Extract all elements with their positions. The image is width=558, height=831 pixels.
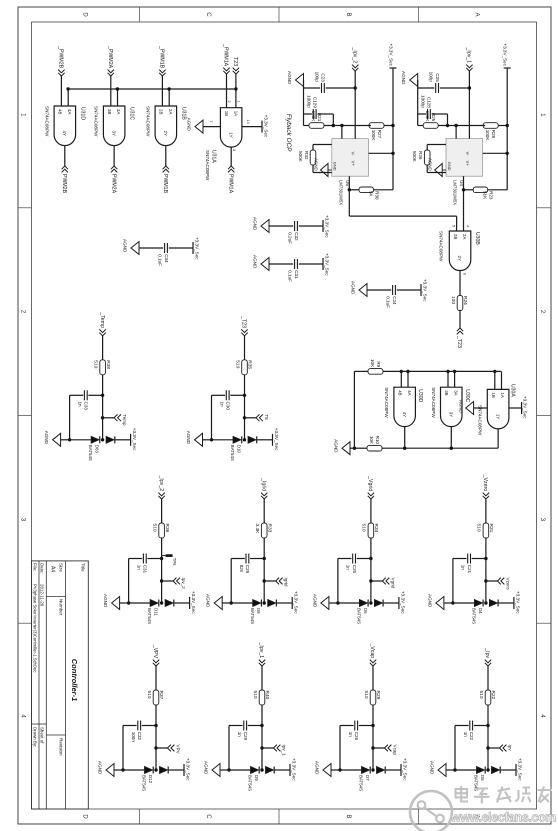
ground AGND under op-amp [314, 158, 329, 177]
wire bus branch to gate input A [67, 89, 69, 106]
port Vgrid [371, 578, 396, 589]
node junction ground rail [338, 768, 341, 771]
power +3.3V_Sec rail [392, 68, 394, 190]
node junction bus-U31D.A [66, 87, 69, 90]
resistor R37 [146, 690, 164, 705]
wire R34 to node [370, 538, 372, 603]
node junction bus-U31B.A [167, 87, 170, 90]
wire C25 to ground rail [338, 558, 352, 560]
node junction V- [454, 124, 457, 127]
op-amp U31A AND gate [205, 108, 242, 181]
diode D5 BAT54S pair [474, 767, 501, 792]
diode D10 BAT54S pair [230, 436, 257, 461]
wire _Vzero to resistor [485, 499, 487, 523]
resistor R33 [254, 523, 272, 538]
wire T23 bus vertical [68, 88, 236, 90]
node junction ground rail [230, 601, 233, 604]
node junction bus B U30C out [450, 447, 453, 450]
port T8 [245, 414, 270, 421]
port VPV [156, 745, 181, 755]
ground AGND [123, 239, 140, 255]
resistor R25 vertical [438, 125, 456, 127]
capacitor C128 branch [446, 124, 449, 127]
wire C31 to ground rail [129, 558, 143, 560]
node junction ground rail [336, 601, 339, 604]
ground AGND U30A [459, 400, 474, 415]
resistor R9 [368, 359, 383, 374]
wire U30D output to bus B [404, 427, 406, 449]
capacitor C24 [386, 285, 397, 308]
port _Vcap [369, 642, 376, 666]
resistor R27 vertical [382, 125, 393, 127]
wire R37 to node [155, 705, 157, 770]
power +3.3V_Sec decoupling C31 [323, 253, 330, 276]
wire power to C32 [299, 225, 323, 227]
ground AGND [103, 594, 120, 610]
port Vzero [486, 578, 511, 590]
wire R40 to node [261, 705, 263, 770]
wire RT to V- node [456, 125, 485, 127]
diode D9 BAT54S pair [248, 767, 275, 792]
resistor R38 [92, 360, 110, 375]
svg-text:www.elecfans.com: www.elecfans.com [450, 811, 556, 825]
wire R29 to node [372, 705, 374, 770]
node junction C branch [260, 724, 263, 727]
port _Vgrid [367, 475, 374, 499]
wire bus to U30D input B [400, 371, 402, 387]
resistor R28 vertical [496, 125, 507, 127]
capacitor C23 branch [326, 87, 356, 89]
wire T23 to U31A pin1 [235, 74, 237, 108]
port T23 [232, 57, 239, 74]
power +3.3V_Sec [514, 591, 521, 614]
capacitor C32 [288, 221, 299, 244]
wire power to C34 [169, 247, 193, 249]
port _T23 [456, 328, 463, 348]
ground rail wire [417, 80, 419, 126]
capacitor C34 [158, 243, 169, 266]
wire C33 to ground rail [70, 394, 84, 396]
port PWM1A [227, 166, 234, 194]
wire diode to ground [231, 602, 252, 604]
op-amp U4 [446, 139, 483, 206]
wire diode to power [499, 602, 514, 604]
node junction V- [340, 124, 343, 127]
wire ground link busA-busB [353, 371, 355, 448]
capacitor C31 [288, 259, 299, 282]
node junction output [348, 188, 351, 191]
node junction ground rail [68, 438, 71, 441]
ground rail wire [303, 80, 305, 126]
capacitor C21 [461, 554, 472, 574]
wire C branch down [88, 394, 102, 396]
node junction ground rail [121, 768, 124, 771]
node junction diode center [101, 438, 104, 441]
wire U30B output to R24 [459, 271, 461, 297]
title block [32, 561, 89, 809]
wire diode to power [257, 439, 272, 441]
ground AGND [98, 761, 115, 777]
power +3.3V_Sec [292, 591, 299, 614]
node junction bus B U30D out [403, 447, 406, 450]
capacitor C25 [429, 72, 440, 93]
capacitor C29 [237, 721, 248, 741]
node junction diode center [260, 768, 263, 771]
wire diode to power [115, 439, 130, 441]
wire input bus A vertical [383, 370, 501, 372]
wire C branch down [147, 558, 161, 560]
op-amp U30D AND gate [384, 387, 423, 426]
wire U5 output riser to U30B [349, 215, 456, 217]
node junction C branch [484, 557, 487, 560]
wire C branch down [250, 558, 264, 560]
wire U30C output to bus B [450, 427, 452, 449]
wire C31 to ground [269, 263, 293, 265]
wire diode to power [174, 602, 189, 604]
wire bus to U30A input B [494, 371, 496, 389]
capacitor C28 [239, 554, 250, 574]
node junction ground rail [453, 768, 456, 771]
op-amp U31B AND gate [145, 106, 186, 146]
wire port to gate input B [110, 76, 112, 106]
wire output [463, 176, 465, 216]
node junction U30C B [446, 370, 449, 373]
capacitor C31 [136, 554, 147, 574]
wire output [348, 176, 350, 216]
power +3.3V_Sec U30A [522, 396, 528, 419]
port _Ipv_2 [158, 475, 165, 499]
resistor R24 [450, 296, 468, 311]
ground AGND [334, 439, 351, 455]
ground AGND [253, 255, 270, 271]
node junction ground rail [127, 601, 130, 604]
node junction tap [101, 416, 104, 419]
ground AGND [186, 431, 203, 447]
wire C26 to ground rail [340, 725, 354, 727]
resistor R26 feedback [427, 144, 446, 146]
ground AGND [312, 594, 329, 610]
wire _T23 to resistor [244, 336, 246, 360]
node junction U30A B [493, 370, 496, 373]
wire power to C31 [299, 263, 323, 265]
wire gate output [165, 146, 167, 167]
port _T23 [241, 315, 248, 336]
port Ipv_1 [262, 745, 287, 757]
wire _Vgrid to resistor [370, 499, 372, 523]
node junction diode center [160, 601, 163, 604]
node junction tap [486, 746, 489, 749]
wire _Igrid to resistor [263, 499, 265, 523]
port _Ipv_1 [466, 47, 473, 71]
node junction tap [160, 579, 163, 582]
wire bus B to ground [350, 447, 354, 449]
wire _Vcap to resistor [372, 666, 374, 690]
ground AGND [315, 761, 332, 777]
wire U30A output to bus B [497, 429, 499, 448]
node junction tap [243, 416, 246, 419]
ground AGND [351, 281, 368, 297]
wire bus branch to gate input A [168, 89, 170, 106]
port _PWM1A [223, 43, 230, 74]
wire C32 to ground rail [123, 725, 137, 727]
port _PWM2B [58, 45, 65, 76]
wire diode to power [501, 769, 516, 771]
test point TP6 [166, 554, 178, 566]
node junction ground rail [210, 438, 213, 441]
wire bus to U30A input A [501, 371, 503, 389]
wire bus to U30D input A [407, 371, 409, 387]
power +3.3V_Sec [273, 428, 280, 451]
wire _Ipv to resistor [487, 666, 489, 690]
op-amp U31D AND gate [44, 106, 85, 146]
capacitor C32 [131, 721, 142, 743]
node junction tap [484, 579, 487, 582]
node junction diode center [243, 438, 246, 441]
power +3.3V_Sec [190, 591, 197, 614]
port port PWM1B [162, 166, 169, 194]
node junction U30D A [406, 370, 409, 373]
wire _PWM1A to U31A pin2 [226, 74, 228, 108]
wire bus branch to gate input A [117, 89, 119, 106]
ground AGND [253, 217, 270, 233]
power +3.3V_Sec decoupling C34 [193, 237, 200, 260]
diode D6 BAT54S pair [357, 600, 384, 625]
op-amp U30C AND gate [431, 387, 470, 426]
resistor R21 [309, 111, 324, 129]
port port PWM2A [110, 166, 117, 194]
capacitor C26 [348, 721, 359, 741]
port Vcap [373, 745, 398, 756]
wire diode to ground [123, 769, 144, 771]
ground AGND [427, 594, 444, 610]
power +3.3V_Sec decoupling C24 [421, 279, 428, 302]
diode D63 BAT54S pair [88, 436, 115, 461]
wire U31A pin 7 to ground [203, 126, 220, 128]
wire C28 to ground rail [231, 558, 245, 560]
ground AGND [187, 118, 204, 134]
port _Ipv [484, 647, 491, 666]
wire U31A pin 14 to power [242, 126, 262, 128]
resistor R10 [367, 436, 382, 451]
wire diode to power [384, 602, 399, 604]
resistor R40 [252, 690, 270, 705]
wire diode to ground [455, 769, 476, 771]
node junction tap [154, 746, 157, 749]
diode D4 BAT54S pair [472, 600, 499, 625]
node junction diode center [263, 601, 266, 604]
capacitor C25 branch [440, 87, 470, 89]
capacitor C129 [306, 95, 317, 119]
wire C branch down [359, 725, 373, 727]
wire C24 to ground [367, 289, 391, 291]
wire R38 to node [102, 375, 104, 440]
port Ipv_2 [162, 578, 187, 590]
ground AGND [430, 761, 447, 777]
power +3.3V_Sec [262, 115, 269, 138]
wire diode to power [277, 602, 292, 604]
power +3.3V_Sec [399, 591, 406, 614]
wire diode to power [169, 769, 184, 771]
resistor R29 [363, 690, 381, 705]
wire C branch down [248, 725, 262, 727]
node junction ground rail [451, 601, 454, 604]
node junction U30C A [453, 370, 456, 373]
node junction tap [369, 579, 372, 582]
ground AGND [401, 71, 418, 87]
power +3.3V_Sec rail [506, 68, 508, 190]
wire R24 to port _T23 [459, 310, 461, 328]
wire _Temp to resistor [102, 336, 104, 360]
wire U30A pin7 ground [474, 407, 488, 409]
resistor R23 pull-up [488, 189, 508, 191]
capacitor C129 branch [332, 124, 335, 127]
wire diode to ground [340, 769, 361, 771]
power +3.3V_Sec [131, 428, 138, 451]
node junction T23 bus [234, 87, 237, 90]
node junction C branch [486, 724, 489, 727]
port port PWM2B [61, 166, 68, 194]
resistor R35 [234, 360, 252, 375]
node junction C-branch on V+ wire [468, 86, 471, 89]
ground AGND [204, 761, 221, 777]
op-amp U5 [332, 139, 369, 206]
port Ipv [488, 745, 513, 752]
node junction C branch [154, 724, 157, 727]
wire diode to ground [129, 602, 150, 604]
capacitor C30 [219, 390, 230, 410]
wire C30 to ground rail [212, 394, 226, 396]
power +3.3V_Sec [401, 758, 408, 781]
port _VPV [152, 644, 159, 666]
port _PWM2A [107, 45, 114, 76]
node junction output [462, 188, 465, 191]
node junction ground link [353, 447, 356, 450]
capacitor C33 [77, 390, 88, 410]
port _Ipv_1 [258, 642, 265, 666]
op-amp U30A AND gate [478, 384, 516, 436]
wire C22 to ground rail [455, 725, 469, 727]
capacitor C22 [463, 721, 474, 741]
wire gate output [113, 146, 115, 167]
resistor R21 vertical [324, 125, 342, 127]
node junction C branch [369, 557, 372, 560]
wire diode to power [275, 769, 290, 771]
wire bus to U30C input B [447, 371, 449, 387]
wire C branch down [142, 725, 156, 727]
wire U31A output pin 3 [230, 147, 232, 166]
wire C34 to ground [139, 247, 163, 249]
wire diode to ground [212, 439, 233, 441]
port Igrid [264, 578, 289, 587]
resistor R34 [361, 523, 379, 538]
wire diode to ground [229, 769, 250, 771]
node junction C branch [263, 557, 266, 560]
capacitor C25 [346, 554, 357, 574]
node junction diode center [486, 768, 489, 771]
ground AGND [206, 594, 223, 610]
node junction ground rail [227, 768, 230, 771]
diode D12 BAT54S pair [142, 767, 169, 792]
power +3.3V_Sec [184, 758, 191, 781]
wire power to C24 [397, 289, 421, 291]
node junction diode center [371, 768, 374, 771]
wire diode to ground [70, 439, 91, 441]
port _Igrid [260, 477, 267, 499]
op-amp U31C AND gate [94, 106, 135, 146]
node junction C-branch on V+ wire [354, 86, 357, 89]
wire C branch down [474, 725, 488, 727]
port _Temp [99, 311, 106, 335]
diode D11 BAT54S pair [147, 600, 174, 625]
node junction tap [371, 746, 374, 749]
wire box supply pin to rail [369, 152, 394, 154]
node junction U30D B [400, 370, 403, 373]
wire U30A pin14 power [509, 407, 522, 409]
resistor R27 [369, 123, 384, 142]
wire bus to U30C input A [454, 371, 456, 387]
node junction diode center [484, 601, 487, 604]
wire _Ipv_1 to resistor [261, 666, 263, 690]
wire R33 to node [263, 538, 265, 603]
node junction tap [263, 579, 266, 582]
power +3.3V_Sec decoupling C32 [323, 215, 330, 238]
node junction diode center [154, 768, 157, 771]
wire port to gate input B [161, 76, 163, 106]
resistor R32 feedback [313, 144, 332, 146]
node junction tap [260, 746, 263, 749]
port _Ipv_2 [351, 47, 358, 71]
resistor R30 pull-up [374, 189, 394, 191]
resistor R22 [478, 690, 496, 705]
wire C branch down [230, 394, 244, 396]
resistor R28 [483, 123, 498, 142]
diode D7 BAT54S pair [359, 767, 386, 792]
wire C branch down [472, 558, 486, 560]
ground AGND under op-amp [428, 158, 443, 177]
wire gate output [64, 146, 66, 167]
power +3.3V_Sec [516, 758, 523, 781]
node junction C branch [101, 394, 104, 397]
wire R31 to node [485, 538, 487, 603]
wire V- input [455, 126, 457, 139]
wire _Ipv_2 to resistor [161, 499, 163, 523]
node junction C branch [160, 557, 163, 560]
wire port to V+ pin [468, 71, 470, 139]
wire R35 to node [244, 375, 246, 440]
node junction C branch [243, 394, 246, 397]
wire diode to power [386, 769, 401, 771]
wire diode to ground [338, 602, 359, 604]
wire diode to ground [453, 602, 474, 604]
wire R22 to node [487, 705, 489, 770]
node junction bus-U31C.A [116, 87, 119, 90]
capacitor C23 [315, 72, 326, 93]
wire C32 to ground [269, 225, 293, 227]
resistor R36 [151, 523, 169, 538]
wire U30 output bus B vertical [382, 447, 498, 449]
ground AGND [287, 71, 304, 87]
wire port to gate input B [60, 76, 62, 106]
capacitor C128 [421, 95, 432, 119]
node junction C branch [371, 724, 374, 727]
wire box supply pin to rail [483, 152, 508, 154]
wire C29 to ground rail [229, 725, 243, 727]
wire V- input [341, 126, 343, 139]
wire _VPV to resistor [155, 666, 157, 690]
op-amp U30B AND gate [439, 231, 481, 271]
port _Vzero [482, 474, 489, 499]
wire R36 to node [161, 538, 163, 603]
